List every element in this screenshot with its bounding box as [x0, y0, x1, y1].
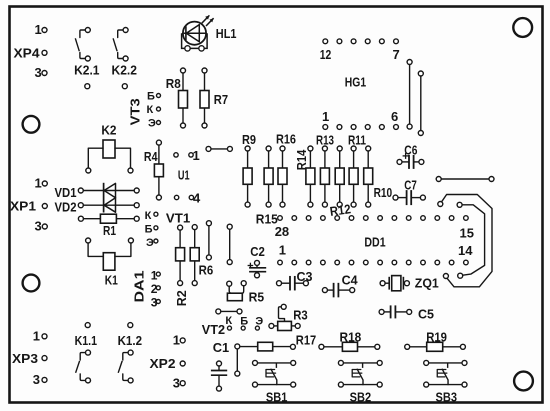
svg-text:C1: C1 — [213, 340, 229, 355]
svg-text:К: К — [145, 210, 152, 222]
svg-text:C3: C3 — [297, 269, 313, 284]
svg-text:U1: U1 — [178, 168, 190, 183]
svg-text:VT1: VT1 — [166, 210, 190, 225]
svg-text:R14: R14 — [294, 149, 309, 170]
svg-text:3: 3 — [33, 372, 40, 387]
svg-text:К: К — [225, 315, 232, 327]
svg-text:VD2: VD2 — [55, 200, 77, 215]
svg-text:R17: R17 — [296, 332, 316, 347]
svg-text:15: 15 — [460, 226, 474, 241]
svg-text:1: 1 — [35, 22, 42, 37]
svg-text:DA1: DA1 — [132, 271, 147, 303]
svg-text:1: 1 — [322, 109, 329, 124]
svg-text:ZQ1: ZQ1 — [415, 275, 439, 290]
svg-text:6: 6 — [391, 109, 398, 124]
svg-text:XP4: XP4 — [14, 46, 41, 61]
svg-text:R3: R3 — [293, 308, 308, 323]
svg-text:K2.2: K2.2 — [112, 62, 138, 77]
svg-text:R4: R4 — [144, 149, 158, 164]
svg-text:7: 7 — [393, 47, 400, 62]
svg-text:C4: C4 — [342, 272, 359, 287]
svg-text:14: 14 — [458, 243, 473, 258]
svg-text:C6: C6 — [404, 142, 417, 157]
svg-text:C5: C5 — [418, 306, 434, 321]
svg-text:R12: R12 — [329, 201, 352, 219]
svg-text:VT3: VT3 — [128, 98, 143, 125]
svg-text:1: 1 — [33, 329, 40, 344]
svg-text:R1: R1 — [103, 223, 116, 238]
svg-text:R10: R10 — [374, 185, 393, 200]
svg-text:3: 3 — [35, 65, 42, 80]
svg-text:R5: R5 — [249, 289, 265, 304]
svg-text:C7: C7 — [404, 178, 417, 193]
svg-text:R9: R9 — [242, 132, 256, 147]
svg-text:1: 1 — [173, 333, 180, 348]
svg-text:R19: R19 — [426, 330, 447, 345]
svg-text:K1: K1 — [105, 273, 118, 288]
svg-text:DD1: DD1 — [364, 235, 385, 250]
svg-text:4: 4 — [193, 190, 201, 205]
svg-text:HG1: HG1 — [345, 74, 366, 89]
svg-text:Б: Б — [147, 91, 155, 103]
svg-text:Э: Э — [146, 237, 154, 249]
svg-text:3: 3 — [35, 219, 42, 234]
svg-text:28: 28 — [275, 224, 289, 239]
svg-text:R6: R6 — [199, 262, 214, 277]
svg-text:VT2: VT2 — [202, 322, 225, 337]
svg-text:1: 1 — [279, 243, 286, 258]
svg-text:Э: Э — [148, 117, 156, 129]
svg-text:12: 12 — [320, 47, 332, 62]
svg-text:R13: R13 — [316, 133, 334, 148]
svg-text:XP2: XP2 — [150, 356, 176, 371]
svg-text:XP3: XP3 — [12, 351, 38, 366]
svg-text:C2: C2 — [250, 244, 265, 259]
svg-text:R7: R7 — [214, 92, 228, 107]
svg-text:1: 1 — [193, 148, 200, 163]
svg-text:К: К — [147, 104, 154, 116]
svg-text:R8: R8 — [166, 76, 181, 91]
svg-text:R11: R11 — [348, 133, 366, 148]
svg-text:K2: K2 — [101, 123, 116, 138]
svg-text:SB3: SB3 — [436, 390, 458, 405]
svg-text:Б: Б — [145, 224, 153, 236]
svg-text:K1.2: K1.2 — [118, 333, 142, 348]
svg-text:3: 3 — [173, 375, 180, 390]
svg-text:VD1: VD1 — [55, 185, 77, 200]
svg-text:HL1: HL1 — [216, 26, 237, 41]
svg-text:K2.1: K2.1 — [74, 62, 99, 77]
svg-text:SB1: SB1 — [266, 390, 288, 405]
svg-text:K1.1: K1.1 — [75, 333, 97, 348]
svg-text:R16: R16 — [276, 132, 296, 147]
svg-text:SB2: SB2 — [350, 390, 372, 405]
svg-text:XP1: XP1 — [10, 199, 36, 214]
svg-text:R2: R2 — [174, 290, 189, 306]
svg-text:R18: R18 — [340, 330, 362, 345]
svg-text:1: 1 — [35, 176, 42, 191]
